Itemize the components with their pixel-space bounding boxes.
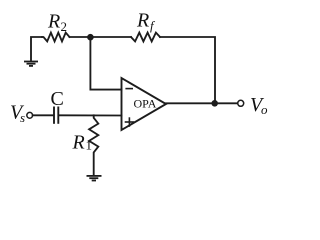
wire output	[166, 102, 238, 104]
svg-text:R: R	[47, 11, 60, 33]
resistor R1	[89, 115, 98, 175]
svg-text:s: s	[20, 110, 25, 125]
wire capacitor to op-amp	[59, 114, 122, 116]
svg-text:C: C	[51, 88, 64, 110]
wire node A segment	[70, 36, 132, 38]
terminal Vo	[238, 100, 244, 106]
wire top-left to ground	[31, 37, 42, 61]
terminal Vs	[27, 112, 33, 118]
ground	[24, 62, 38, 66]
node output junction	[211, 100, 218, 107]
wire inverting input	[90, 37, 121, 90]
resistor Rf	[131, 33, 160, 42]
svg-text:OPA: OPA	[134, 96, 157, 110]
op-amp plus pin	[125, 117, 135, 127]
svg-text:o: o	[261, 102, 268, 117]
resistor R2	[42, 33, 70, 42]
wire top-right	[160, 37, 215, 103]
op-amp minus pin	[125, 88, 133, 90]
svg-text:R: R	[72, 132, 85, 154]
svg-text:1: 1	[86, 138, 93, 153]
svg-text:2: 2	[61, 19, 68, 34]
svg-text:R: R	[136, 10, 149, 32]
op-amp U1	[122, 78, 167, 130]
capacitor C	[54, 107, 58, 124]
node A junction	[87, 34, 94, 41]
svg-text:f: f	[150, 18, 156, 33]
ground	[87, 176, 102, 181]
wire noninverting input	[33, 114, 53, 116]
